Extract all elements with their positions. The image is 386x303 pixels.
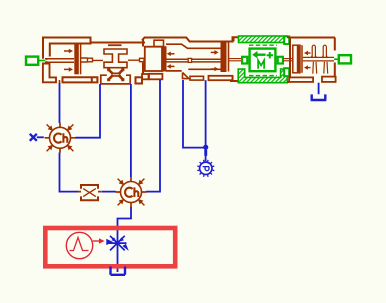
motor module top hatch band bbox=[239, 36, 288, 43]
motor module bottom hatch (bridge shape) bbox=[238, 69, 287, 83]
green port left bbox=[26, 57, 45, 65]
motor dashed boundary top bbox=[249, 44, 277, 46]
S1 channel right of piston bbox=[81, 58, 88, 62]
junction node J1 bbox=[203, 145, 208, 150]
Ch2 diagonal arrows bbox=[118, 179, 145, 206]
wire W10 Ch2 bottom to generator X node bbox=[118, 207, 132, 272]
motor dashed boundary bottom bbox=[249, 75, 277, 77]
valve section S2 top edge bbox=[92, 42, 146, 44]
motor plus sign bbox=[267, 52, 273, 58]
S4 arrow up (left) bbox=[304, 51, 311, 70]
pressure gauge P1 bbox=[197, 160, 214, 177]
motor coupling rod left bbox=[229, 59, 243, 61]
valve section S1 outer shell bbox=[43, 37, 92, 59]
wire W3 valve port to Ch2 top bbox=[130, 84, 132, 177]
motor left tab bbox=[242, 57, 247, 64]
S2 poppet cap bar bbox=[108, 44, 122, 46]
S4 right edge upper bbox=[334, 38, 336, 51]
S3b arrow down (right) bbox=[211, 68, 215, 70]
S4 arrow down (left) bbox=[308, 67, 311, 69]
S4 spring 1 bbox=[311, 45, 328, 73]
signal generator G1 circle bbox=[66, 232, 92, 258]
S4 piston outline bbox=[293, 45, 300, 73]
valve section S1 bottom flange bbox=[63, 77, 98, 82]
motor direction arrow bbox=[257, 54, 266, 56]
S3b piston bbox=[221, 42, 226, 72]
wire W5 valve port to junction bbox=[183, 80, 206, 148]
valve section S1 lower-left wall bbox=[43, 64, 56, 83]
S4 bottom flange box left bbox=[287, 81, 289, 83]
Ch2 label bbox=[125, 187, 138, 197]
green port right bbox=[334, 55, 351, 63]
motor frame green square top-right bbox=[284, 36, 289, 44]
S2 T-poppet I-beam bbox=[104, 49, 127, 68]
tank symbol under S4 bbox=[311, 83, 327, 100]
terminal X1 blue cross bbox=[30, 134, 37, 141]
component Ch2 circle bbox=[116, 177, 147, 207]
S2 bottom right piece bbox=[136, 77, 143, 83]
valve section S1 inner shell bbox=[50, 37, 91, 57]
port stub for wire W1 bbox=[59, 80, 61, 83]
connector nub S3a-S3b bbox=[188, 58, 191, 62]
S3a arrow up (left) bbox=[170, 53, 175, 55]
S3 rod lines bbox=[166, 59, 221, 62]
connector nub S1-S2 bbox=[88, 58, 93, 62]
motor letter M bbox=[258, 60, 264, 69]
S4 bottom flange box right bbox=[322, 77, 336, 82]
S3a arrow down (left) bbox=[170, 65, 175, 67]
S3 spool land bbox=[162, 47, 166, 71]
connector nub S2-S3 bbox=[140, 58, 145, 61]
S4 spring 2 bbox=[322, 45, 328, 73]
S1 arrow down bbox=[64, 68, 70, 70]
tank symbol under red box bbox=[111, 267, 126, 275]
motor coupling rod right bbox=[283, 59, 293, 61]
S1 pressure channel lines bbox=[45, 59, 74, 62]
frame corner left of motor top bbox=[233, 37, 235, 41]
S4 piston face line bbox=[301, 45, 303, 73]
signal generator enclosure (red box) bbox=[45, 228, 175, 266]
arrow to lower right of X2 bbox=[122, 244, 128, 251]
wire W2 valve port to Ch1 right bbox=[76, 84, 101, 138]
S3 chamber top cap box bbox=[154, 40, 164, 46]
wire W9 Ch1 bottom to restrictor to Ch2 left bbox=[60, 153, 117, 192]
S3 bottom shallow box bbox=[190, 76, 204, 80]
S3 bottom slant piece bbox=[183, 73, 189, 79]
node X2 starburst bbox=[108, 236, 126, 251]
motor frame green square bottom-right bbox=[284, 68, 289, 76]
S3 bottom wide flange bbox=[209, 76, 233, 80]
S3b arrow up (right) bbox=[211, 51, 215, 53]
wire W1 valve port to Ch1 top bbox=[59, 83, 61, 123]
S2 bottom box bbox=[101, 75, 130, 84]
valve section S4 top edge bbox=[287, 36, 335, 38]
S3 left wall segments bbox=[142, 39, 144, 75]
S3b inner bottom wall bbox=[166, 69, 221, 71]
gauge letter bbox=[203, 167, 209, 171]
S3b piston face line bbox=[228, 42, 230, 72]
wire W4 valve port to Ch2 right bbox=[146, 80, 160, 192]
Ch1 diagonal arrows bbox=[47, 124, 74, 151]
S3 bottom left foot bbox=[142, 74, 149, 79]
generator waveform bbox=[70, 238, 89, 251]
valve section S3 top edge bbox=[142, 37, 238, 41]
Ch1 stubs N E S W bbox=[45, 123, 76, 153]
S1 piston face line bbox=[80, 44, 82, 75]
S2 X-poppet seat element bbox=[109, 70, 123, 80]
signal input arrow (blue) bbox=[106, 239, 113, 245]
S3 bottom box under chamber bbox=[149, 74, 162, 80]
S4 rod lines through springs bbox=[303, 57, 334, 61]
wire W8 Ch1 left to terminal X1 bbox=[37, 136, 44, 138]
S4 left edge bbox=[289, 38, 291, 79]
S4 piston dark bar bbox=[297, 45, 300, 73]
motor right tab bbox=[278, 57, 283, 64]
S2 poppet stem line bbox=[93, 59, 140, 61]
generator output arrow (red) bbox=[93, 240, 100, 242]
component Ch1 circle bbox=[45, 123, 76, 153]
motor body box U1 bbox=[250, 49, 276, 72]
S3b inner top wall bbox=[166, 44, 221, 48]
S3 chamber bbox=[145, 47, 162, 71]
Ch2 stubs N E S W bbox=[116, 177, 147, 207]
frame bottom under motor left bbox=[230, 76, 238, 82]
S1 piston bbox=[74, 44, 79, 75]
flow restrictor symbol bbox=[78, 185, 102, 200]
Ch1 label bbox=[54, 133, 67, 143]
S4 right edge lower bbox=[334, 63, 336, 78]
S1 arrow up bbox=[64, 49, 219, 72]
wire W6 valve port to gauge bbox=[205, 80, 207, 161]
